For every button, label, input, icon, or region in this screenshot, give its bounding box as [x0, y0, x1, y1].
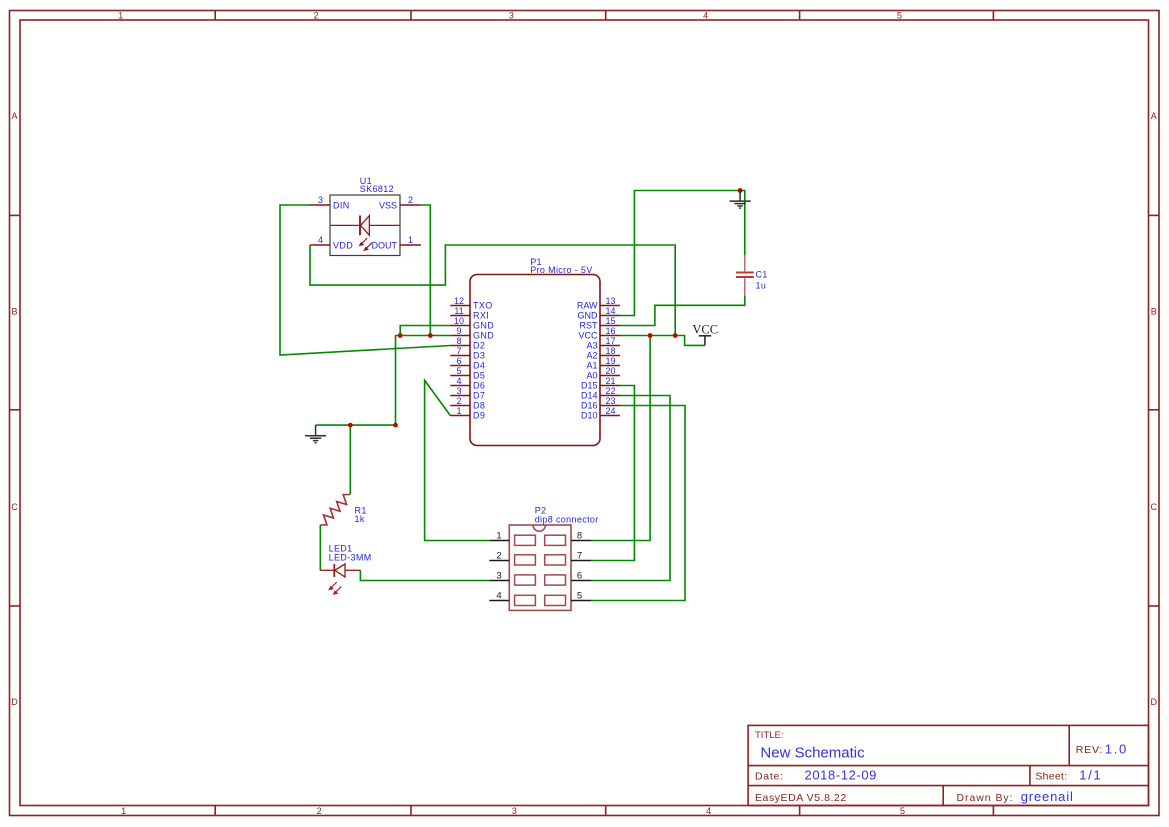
P2 pin 5: [571, 600, 591, 602]
svg-text:7: 7: [456, 346, 461, 356]
wire P1.VCC to flag: [620, 336, 705, 346]
P1 pin 6 D4: [450, 365, 470, 367]
P1 pin 1 D9: [450, 415, 470, 417]
junction dot: [348, 423, 353, 428]
svg-text:LED-3MM: LED-3MM: [329, 552, 372, 562]
wire U1.DIN to P1.D2: [280, 205, 450, 355]
svg-text:1: 1: [121, 806, 126, 816]
VCC power flag: [699, 336, 712, 346]
wire P1.D14 to P2.6: [591, 396, 670, 581]
svg-text:1.0: 1.0: [1105, 742, 1128, 757]
svg-text:6: 6: [577, 570, 582, 581]
svg-text:TXO: TXO: [473, 301, 493, 311]
svg-text:A1: A1: [586, 361, 597, 371]
svg-text:4: 4: [496, 590, 501, 601]
svg-text:D8: D8: [473, 401, 485, 411]
wire VCC to P2.8: [591, 336, 650, 541]
svg-text:VSS: VSS: [379, 200, 397, 210]
P1 pin 16 VCC: [600, 335, 620, 337]
connector P2 body: [509, 525, 571, 610]
P1 pin 23 D16: [600, 405, 620, 407]
svg-text:2018-12-09: 2018-12-09: [805, 768, 878, 783]
svg-text:D16: D16: [581, 401, 598, 411]
svg-text:D10: D10: [581, 411, 598, 421]
U1 pin 1 DOUT: [400, 244, 421, 246]
svg-text:19: 19: [605, 356, 615, 366]
svg-text:Sheet:: Sheet:: [1035, 770, 1067, 782]
svg-text:2: 2: [496, 550, 501, 561]
svg-text:D: D: [11, 697, 18, 707]
wire P1.D15 to P2.7: [591, 386, 634, 561]
svg-text:REV:: REV:: [1076, 744, 1103, 756]
svg-text:18: 18: [605, 346, 615, 356]
P1 pin 21 D15: [600, 385, 620, 387]
wire P1.D9 to P2.1: [425, 380, 490, 540]
svg-text:VCC: VCC: [692, 322, 718, 336]
svg-text:1: 1: [118, 10, 123, 20]
svg-text:Drawn By:: Drawn By:: [957, 792, 1014, 804]
junction dot: [428, 333, 433, 338]
svg-text:16: 16: [605, 326, 615, 336]
svg-text:DIN: DIN: [333, 200, 350, 210]
svg-text:1: 1: [496, 530, 501, 541]
P1 pin 19 A1: [600, 365, 620, 367]
ground symbol (top, near C1): [730, 191, 751, 209]
wire R1 to LED1: [319, 525, 321, 570]
svg-text:A2: A2: [586, 351, 597, 361]
P2 pin 4: [489, 600, 509, 602]
svg-text:C1: C1: [756, 270, 768, 280]
svg-text:D5: D5: [473, 371, 485, 381]
wire ground bus: [316, 424, 396, 426]
svg-text:20: 20: [605, 366, 615, 376]
ground symbol (left, near R1): [305, 425, 326, 443]
junction dot: [738, 188, 743, 193]
P1 pin 22 D14: [600, 395, 620, 397]
wire P1.D16 to P2.5: [591, 406, 685, 601]
svg-text:greenail: greenail: [1021, 789, 1074, 804]
wire P1.GND pin9 to ground: [396, 336, 451, 426]
svg-text:11: 11: [454, 306, 463, 316]
svg-text:2: 2: [317, 806, 322, 816]
svg-text:3: 3: [318, 195, 323, 205]
svg-text:12: 12: [454, 296, 464, 306]
svg-text:RXI: RXI: [473, 311, 489, 321]
P1 pin 18 A2: [600, 355, 620, 357]
svg-text:23: 23: [605, 396, 615, 406]
wire LED1 to P2.3: [360, 570, 489, 580]
svg-text:D7: D7: [473, 391, 485, 401]
svg-text:17: 17: [605, 336, 615, 346]
svg-text:3: 3: [509, 10, 514, 20]
svg-text:5: 5: [900, 806, 905, 816]
P2 pin 7: [571, 560, 591, 562]
P2 pin 2: [489, 560, 509, 562]
svg-text:TITLE:: TITLE:: [755, 730, 784, 741]
svg-text:3: 3: [512, 806, 517, 816]
svg-text:1: 1: [408, 235, 413, 245]
svg-text:13: 13: [605, 296, 615, 306]
svg-text:3: 3: [456, 386, 461, 396]
svg-text:3: 3: [496, 570, 501, 581]
svg-text:6: 6: [456, 356, 461, 366]
P2 pin 8: [571, 540, 591, 542]
svg-text:4: 4: [456, 376, 461, 386]
svg-text:4: 4: [318, 235, 323, 245]
wire ground to R1: [349, 425, 351, 494]
svg-text:1k: 1k: [355, 514, 365, 524]
svg-text:RST: RST: [580, 321, 599, 331]
svg-text:A0: A0: [586, 371, 597, 381]
svg-text:dip8 connector: dip8 connector: [535, 515, 599, 525]
capacitor C1: [736, 255, 754, 295]
P1 pin 10 GND: [450, 325, 470, 327]
svg-text:GND: GND: [473, 321, 494, 331]
junction dot: [393, 423, 398, 428]
wire U1.VSS to GND node: [421, 205, 430, 336]
svg-text:D3: D3: [473, 351, 485, 361]
svg-text:SK6812: SK6812: [360, 184, 394, 194]
svg-text:GND: GND: [578, 311, 599, 321]
svg-text:EasyEDA V5.8.22: EasyEDA V5.8.22: [755, 792, 847, 804]
P1 pin 24 D10: [600, 415, 620, 417]
wire U1.VDD to VCC: [310, 245, 675, 336]
svg-text:5: 5: [577, 590, 582, 601]
P1 pin 5 D5: [450, 375, 470, 377]
svg-text:Pro Micro - 5V: Pro Micro - 5V: [530, 265, 592, 275]
U1 pin 3 DIN: [310, 204, 330, 206]
svg-text:1: 1: [456, 406, 461, 416]
P1 pin 11 RXI: [450, 315, 470, 317]
svg-text:2: 2: [456, 396, 461, 406]
U1 pin 4 VDD: [310, 244, 330, 246]
svg-text:VDD: VDD: [333, 240, 353, 250]
svg-text:14: 14: [605, 306, 615, 316]
P1 pin 9 GND: [450, 335, 470, 337]
svg-text:4: 4: [706, 806, 711, 816]
svg-text:1/1: 1/1: [1079, 768, 1102, 783]
svg-text:D9: D9: [473, 411, 485, 421]
svg-text:D4: D4: [473, 361, 485, 371]
P1 pin 14 GND: [600, 315, 620, 317]
svg-text:21: 21: [605, 376, 615, 386]
P1 pin 12 TXO: [450, 305, 470, 307]
svg-text:2: 2: [314, 10, 319, 20]
svg-text:2: 2: [408, 195, 413, 205]
LED LED1 symbol: [320, 564, 360, 577]
P1 pin 15 RST: [600, 325, 620, 327]
svg-text:D6: D6: [473, 381, 485, 391]
svg-text:7: 7: [577, 550, 582, 561]
svg-text:D14: D14: [581, 391, 598, 401]
P1 pin 4 D6: [450, 385, 470, 387]
svg-text:9: 9: [456, 326, 461, 336]
P2 pin 1: [489, 540, 509, 542]
junction dot: [673, 333, 678, 338]
P1 pin 13 RAW: [600, 305, 620, 307]
svg-text:10: 10: [454, 316, 464, 326]
LED1 emission arrows: [329, 582, 341, 594]
svg-text:22: 22: [605, 386, 615, 396]
svg-text:Date:: Date:: [755, 770, 784, 782]
svg-text:VCC: VCC: [578, 331, 598, 341]
svg-text:A: A: [1151, 111, 1157, 121]
P1 pin 7 D3: [450, 355, 470, 357]
svg-text:B: B: [1151, 307, 1157, 317]
svg-text:24: 24: [605, 406, 615, 416]
svg-text:4: 4: [703, 10, 708, 20]
svg-text:D15: D15: [581, 381, 598, 391]
svg-text:C: C: [11, 502, 18, 512]
P2 pin 6: [571, 580, 591, 582]
svg-text:RAW: RAW: [577, 301, 598, 311]
wire P1.GND pin10 link: [400, 326, 450, 336]
junction dot: [398, 333, 403, 338]
svg-text:B: B: [11, 307, 17, 317]
wire C1 to P1.RST: [620, 295, 745, 325]
junction dot: [648, 333, 653, 338]
P1 pin 3 D7: [450, 395, 470, 397]
svg-text:5: 5: [456, 366, 461, 376]
P1 pin 8 D2: [450, 345, 470, 347]
svg-text:DOUT: DOUT: [372, 240, 398, 250]
svg-text:15: 15: [605, 316, 615, 326]
resistor R1: [320, 495, 350, 526]
P2 internal pads: [515, 535, 566, 605]
svg-text:5: 5: [897, 10, 902, 20]
P2 pin 3: [489, 580, 509, 582]
P1 pin 20 A0: [600, 375, 620, 377]
U1 pin 2 VSS: [400, 204, 421, 206]
svg-text:D2: D2: [473, 341, 485, 351]
svg-text:D: D: [1151, 697, 1158, 707]
svg-text:8: 8: [577, 530, 582, 541]
svg-text:1u: 1u: [756, 281, 767, 291]
IC P1 body: [470, 275, 600, 446]
svg-text:C: C: [1151, 502, 1158, 512]
U1 internal LED symbol: [330, 216, 400, 236]
wire P1.GND14 to top ground / C1: [620, 191, 745, 316]
svg-text:A3: A3: [586, 341, 597, 351]
svg-text:GND: GND: [473, 331, 494, 341]
svg-text:New Schematic: New Schematic: [760, 744, 865, 761]
IC U1 body: [330, 195, 400, 256]
U1 LED emission arrows: [360, 238, 372, 250]
svg-text:8: 8: [456, 336, 461, 346]
P1 pin 17 A3: [600, 345, 620, 347]
P1 pin 2 D8: [450, 405, 470, 407]
svg-text:A: A: [11, 111, 17, 121]
